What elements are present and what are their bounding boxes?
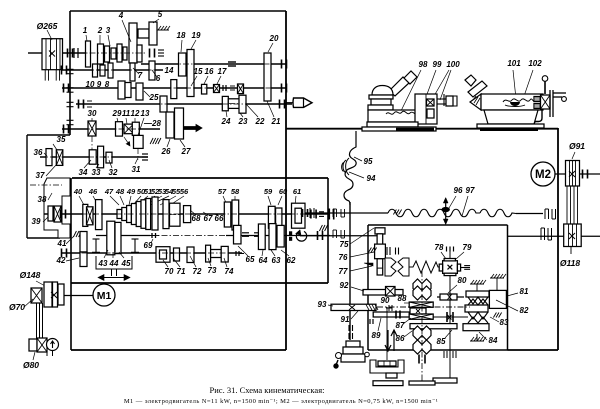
svg-text:80: 80 bbox=[458, 276, 467, 285]
svg-text:75: 75 bbox=[340, 240, 349, 249]
svg-text:46: 46 bbox=[88, 187, 98, 196]
svg-text:31: 31 bbox=[132, 165, 141, 174]
svg-text:22: 22 bbox=[255, 117, 265, 126]
svg-text:92: 92 bbox=[340, 281, 349, 290]
svg-text:17: 17 bbox=[218, 67, 227, 76]
svg-text:78: 78 bbox=[435, 243, 444, 252]
svg-text:59: 59 bbox=[264, 187, 273, 196]
svg-text:Ø80: Ø80 bbox=[23, 360, 39, 370]
svg-text:73: 73 bbox=[208, 266, 217, 275]
svg-text:66: 66 bbox=[215, 214, 224, 223]
svg-text:Ø70: Ø70 bbox=[9, 302, 25, 312]
svg-text:21: 21 bbox=[271, 117, 281, 126]
svg-text:95: 95 bbox=[364, 157, 373, 166]
svg-text:83: 83 bbox=[500, 318, 509, 327]
svg-text:48: 48 bbox=[115, 187, 125, 196]
svg-text:74: 74 bbox=[225, 267, 234, 276]
svg-text:43: 43 bbox=[98, 259, 108, 268]
svg-text:11: 11 bbox=[122, 109, 131, 118]
svg-text:56: 56 bbox=[180, 187, 189, 196]
svg-text:M1: M1 bbox=[97, 290, 112, 302]
svg-text:14: 14 bbox=[165, 66, 174, 75]
svg-text:93: 93 bbox=[318, 300, 327, 309]
svg-text:76: 76 bbox=[339, 253, 348, 262]
svg-text:25: 25 bbox=[149, 93, 159, 102]
svg-text:94: 94 bbox=[367, 174, 376, 183]
svg-text:64: 64 bbox=[259, 256, 268, 265]
svg-text:68: 68 bbox=[192, 214, 201, 223]
svg-text:44: 44 bbox=[109, 259, 119, 268]
svg-text:101: 101 bbox=[507, 59, 521, 68]
svg-text:79: 79 bbox=[463, 243, 472, 252]
svg-text:67: 67 bbox=[204, 214, 213, 223]
svg-text:Рис. 31. Схема кинематическая:: Рис. 31. Схема кинематическая: bbox=[210, 385, 325, 395]
svg-text:65: 65 bbox=[246, 255, 255, 264]
svg-text:29: 29 bbox=[112, 109, 122, 118]
svg-text:89: 89 bbox=[372, 331, 381, 340]
svg-text:36: 36 bbox=[34, 148, 43, 157]
svg-text:47: 47 bbox=[104, 187, 114, 196]
svg-text:23: 23 bbox=[238, 117, 248, 126]
svg-text:19: 19 bbox=[192, 31, 201, 40]
svg-text:77: 77 bbox=[339, 267, 348, 276]
svg-text:Ø265: Ø265 bbox=[37, 21, 58, 31]
svg-text:100: 100 bbox=[446, 60, 460, 69]
svg-text:1: 1 bbox=[83, 26, 88, 35]
svg-text:38: 38 bbox=[38, 195, 47, 204]
svg-text:88: 88 bbox=[398, 294, 407, 303]
svg-text:87: 87 bbox=[396, 321, 405, 330]
svg-text:35: 35 bbox=[57, 135, 66, 144]
svg-text:63: 63 bbox=[272, 256, 281, 265]
svg-text:—28: —28 bbox=[143, 119, 161, 128]
svg-text:4: 4 bbox=[118, 11, 124, 20]
svg-text:60: 60 bbox=[279, 187, 288, 196]
svg-text:37: 37 bbox=[36, 171, 45, 180]
svg-text:81: 81 bbox=[520, 287, 529, 296]
svg-text:3: 3 bbox=[106, 26, 111, 35]
svg-text:Ø148: Ø148 bbox=[20, 270, 41, 280]
svg-text:90: 90 bbox=[381, 296, 390, 305]
svg-text:58: 58 bbox=[231, 187, 240, 196]
svg-text:72: 72 bbox=[193, 267, 202, 276]
svg-text:32: 32 bbox=[109, 168, 118, 177]
svg-text:13: 13 bbox=[141, 109, 150, 118]
svg-text:98: 98 bbox=[419, 60, 428, 69]
svg-text:96: 96 bbox=[454, 186, 463, 195]
svg-text:6: 6 bbox=[156, 74, 161, 83]
svg-text:Ø118: Ø118 bbox=[560, 258, 580, 268]
svg-text:49: 49 bbox=[126, 187, 136, 196]
svg-text:12: 12 bbox=[131, 109, 140, 118]
svg-text:30: 30 bbox=[88, 109, 97, 118]
svg-text:20: 20 bbox=[269, 34, 279, 43]
svg-text:91: 91 bbox=[341, 315, 350, 324]
svg-text:34: 34 bbox=[79, 168, 88, 177]
svg-text:99: 99 bbox=[433, 60, 442, 69]
svg-text:84: 84 bbox=[489, 336, 498, 345]
svg-text:97: 97 bbox=[466, 186, 475, 195]
svg-text:45: 45 bbox=[121, 259, 131, 268]
svg-text:27: 27 bbox=[181, 147, 191, 156]
svg-text:71: 71 bbox=[177, 267, 186, 276]
svg-text:5: 5 bbox=[158, 10, 163, 19]
svg-text:М1 — электродвигатель N=11 kW: М1 — электродвигатель N=11 kW, n=1500 mi… bbox=[124, 398, 438, 405]
svg-text:102: 102 bbox=[528, 59, 542, 68]
svg-text:70: 70 bbox=[165, 267, 174, 276]
svg-text:41: 41 bbox=[57, 239, 67, 248]
svg-text:82: 82 bbox=[520, 306, 529, 315]
svg-text:39: 39 bbox=[32, 217, 41, 226]
svg-text:24: 24 bbox=[221, 117, 231, 126]
svg-text:M2: M2 bbox=[535, 169, 551, 181]
svg-text:85: 85 bbox=[437, 337, 446, 346]
svg-text:18: 18 bbox=[177, 31, 186, 40]
svg-text:33: 33 bbox=[92, 168, 101, 177]
svg-text:16: 16 bbox=[205, 67, 214, 76]
svg-text:40: 40 bbox=[73, 187, 83, 196]
svg-text:61: 61 bbox=[293, 187, 301, 196]
svg-text:26: 26 bbox=[161, 147, 171, 156]
svg-text:Ø91: Ø91 bbox=[569, 141, 585, 151]
svg-text:62: 62 bbox=[287, 256, 296, 265]
svg-text:57: 57 bbox=[218, 187, 227, 196]
svg-text:15: 15 bbox=[194, 67, 203, 76]
svg-text:2: 2 bbox=[97, 26, 103, 35]
svg-text:7: 7 bbox=[138, 71, 143, 80]
svg-text:42: 42 bbox=[56, 256, 66, 265]
